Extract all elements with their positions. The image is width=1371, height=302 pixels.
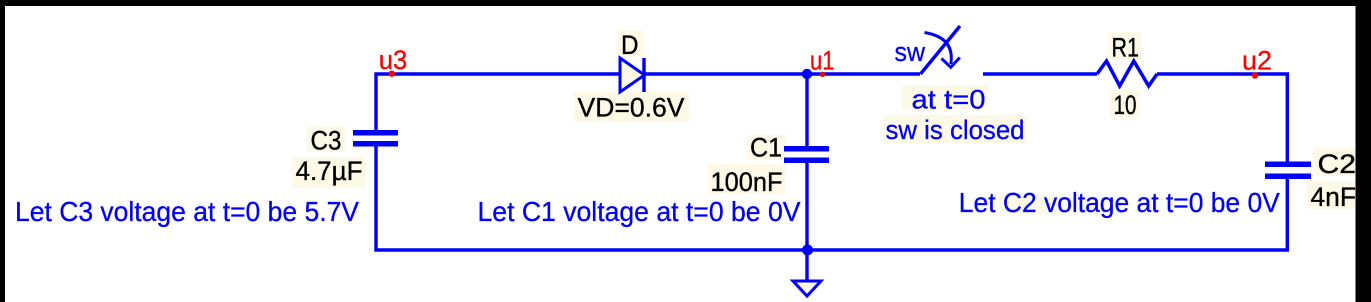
svg-text:Let C1 voltage at t=0 be 0V: Let C1 voltage at t=0 be 0V — [478, 196, 801, 227]
svg-text:4nF: 4nF — [1311, 182, 1357, 212]
svg-text:Let C2 voltage at t=0 be 0V: Let C2 voltage at t=0 be 0V — [959, 187, 1280, 218]
svg-text:100nF: 100nF — [711, 167, 783, 197]
svg-text:C2: C2 — [1318, 149, 1357, 179]
svg-text:C3: C3 — [311, 126, 342, 156]
svg-text:sw: sw — [895, 37, 926, 67]
svg-text:10: 10 — [1114, 90, 1137, 120]
svg-text:C1: C1 — [750, 133, 782, 163]
svg-text:u1: u1 — [810, 45, 835, 75]
svg-text:sw is closed: sw is closed — [886, 115, 1025, 145]
svg-text:4.7µF: 4.7µF — [296, 156, 363, 186]
svg-text:Let C3 voltage at t=0 be 5.7V: Let C3 voltage at t=0 be 5.7V — [15, 196, 359, 227]
svg-text:R1: R1 — [1112, 33, 1140, 63]
svg-text:at t=0: at t=0 — [912, 85, 986, 115]
svg-text:VD=0.6V: VD=0.6V — [578, 92, 685, 122]
svg-text:D: D — [621, 30, 639, 60]
svg-text:u3: u3 — [379, 45, 408, 75]
svg-text:u2: u2 — [1242, 45, 1272, 75]
